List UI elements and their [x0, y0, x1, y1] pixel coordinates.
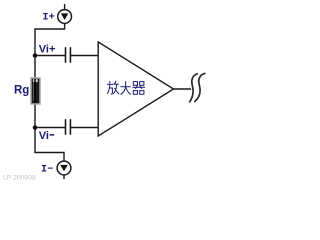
svg-text:Vi: Vi [39, 130, 49, 142]
svg-text:I+: I+ [42, 12, 54, 24]
svg-text:Vi+: Vi+ [39, 43, 56, 55]
svg-text:I−: I− [41, 164, 53, 176]
svg-text:Rg: Rg [14, 85, 29, 97]
svg-text:LP 200808: LP 200808 [3, 175, 36, 182]
